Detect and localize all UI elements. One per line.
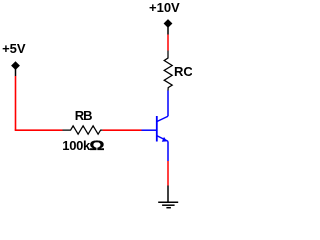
wire +10V to RC (167, 35, 169, 51)
collector diagonal (157, 116, 168, 121)
emitter diagonal (157, 136, 168, 142)
node +10V terminal diamond (164, 19, 173, 28)
svg-text:RC: RC (174, 64, 192, 79)
node +10V pin stub (167, 27, 169, 35)
node +5V terminal diamond (11, 61, 20, 70)
ground pin stub (167, 186, 169, 203)
svg-text:100k: 100k (62, 138, 91, 153)
emitter lead vertical (167, 141, 169, 161)
emitter arrowhead (162, 137, 167, 142)
resistor RC (164, 51, 172, 91)
ground (158, 202, 178, 207)
node +5V pin stub (15, 69, 17, 76)
resistor RB (63, 126, 103, 134)
svg-text:Ω: Ω (89, 139, 104, 154)
svg-text:RB: RB (75, 108, 92, 123)
base bar (156, 116, 158, 142)
wire emitter down (167, 161, 169, 186)
svg-text:+5V: +5V (2, 41, 26, 56)
wire RB to base (103, 129, 142, 131)
wire +5V vertical (15, 76, 17, 130)
svg-text:+10V: +10V (149, 0, 180, 15)
transistor Q1 (142, 91, 169, 162)
wire +5V horizontal to RB (15, 129, 63, 131)
base lead (142, 129, 157, 131)
collector lead vertical (167, 91, 169, 117)
